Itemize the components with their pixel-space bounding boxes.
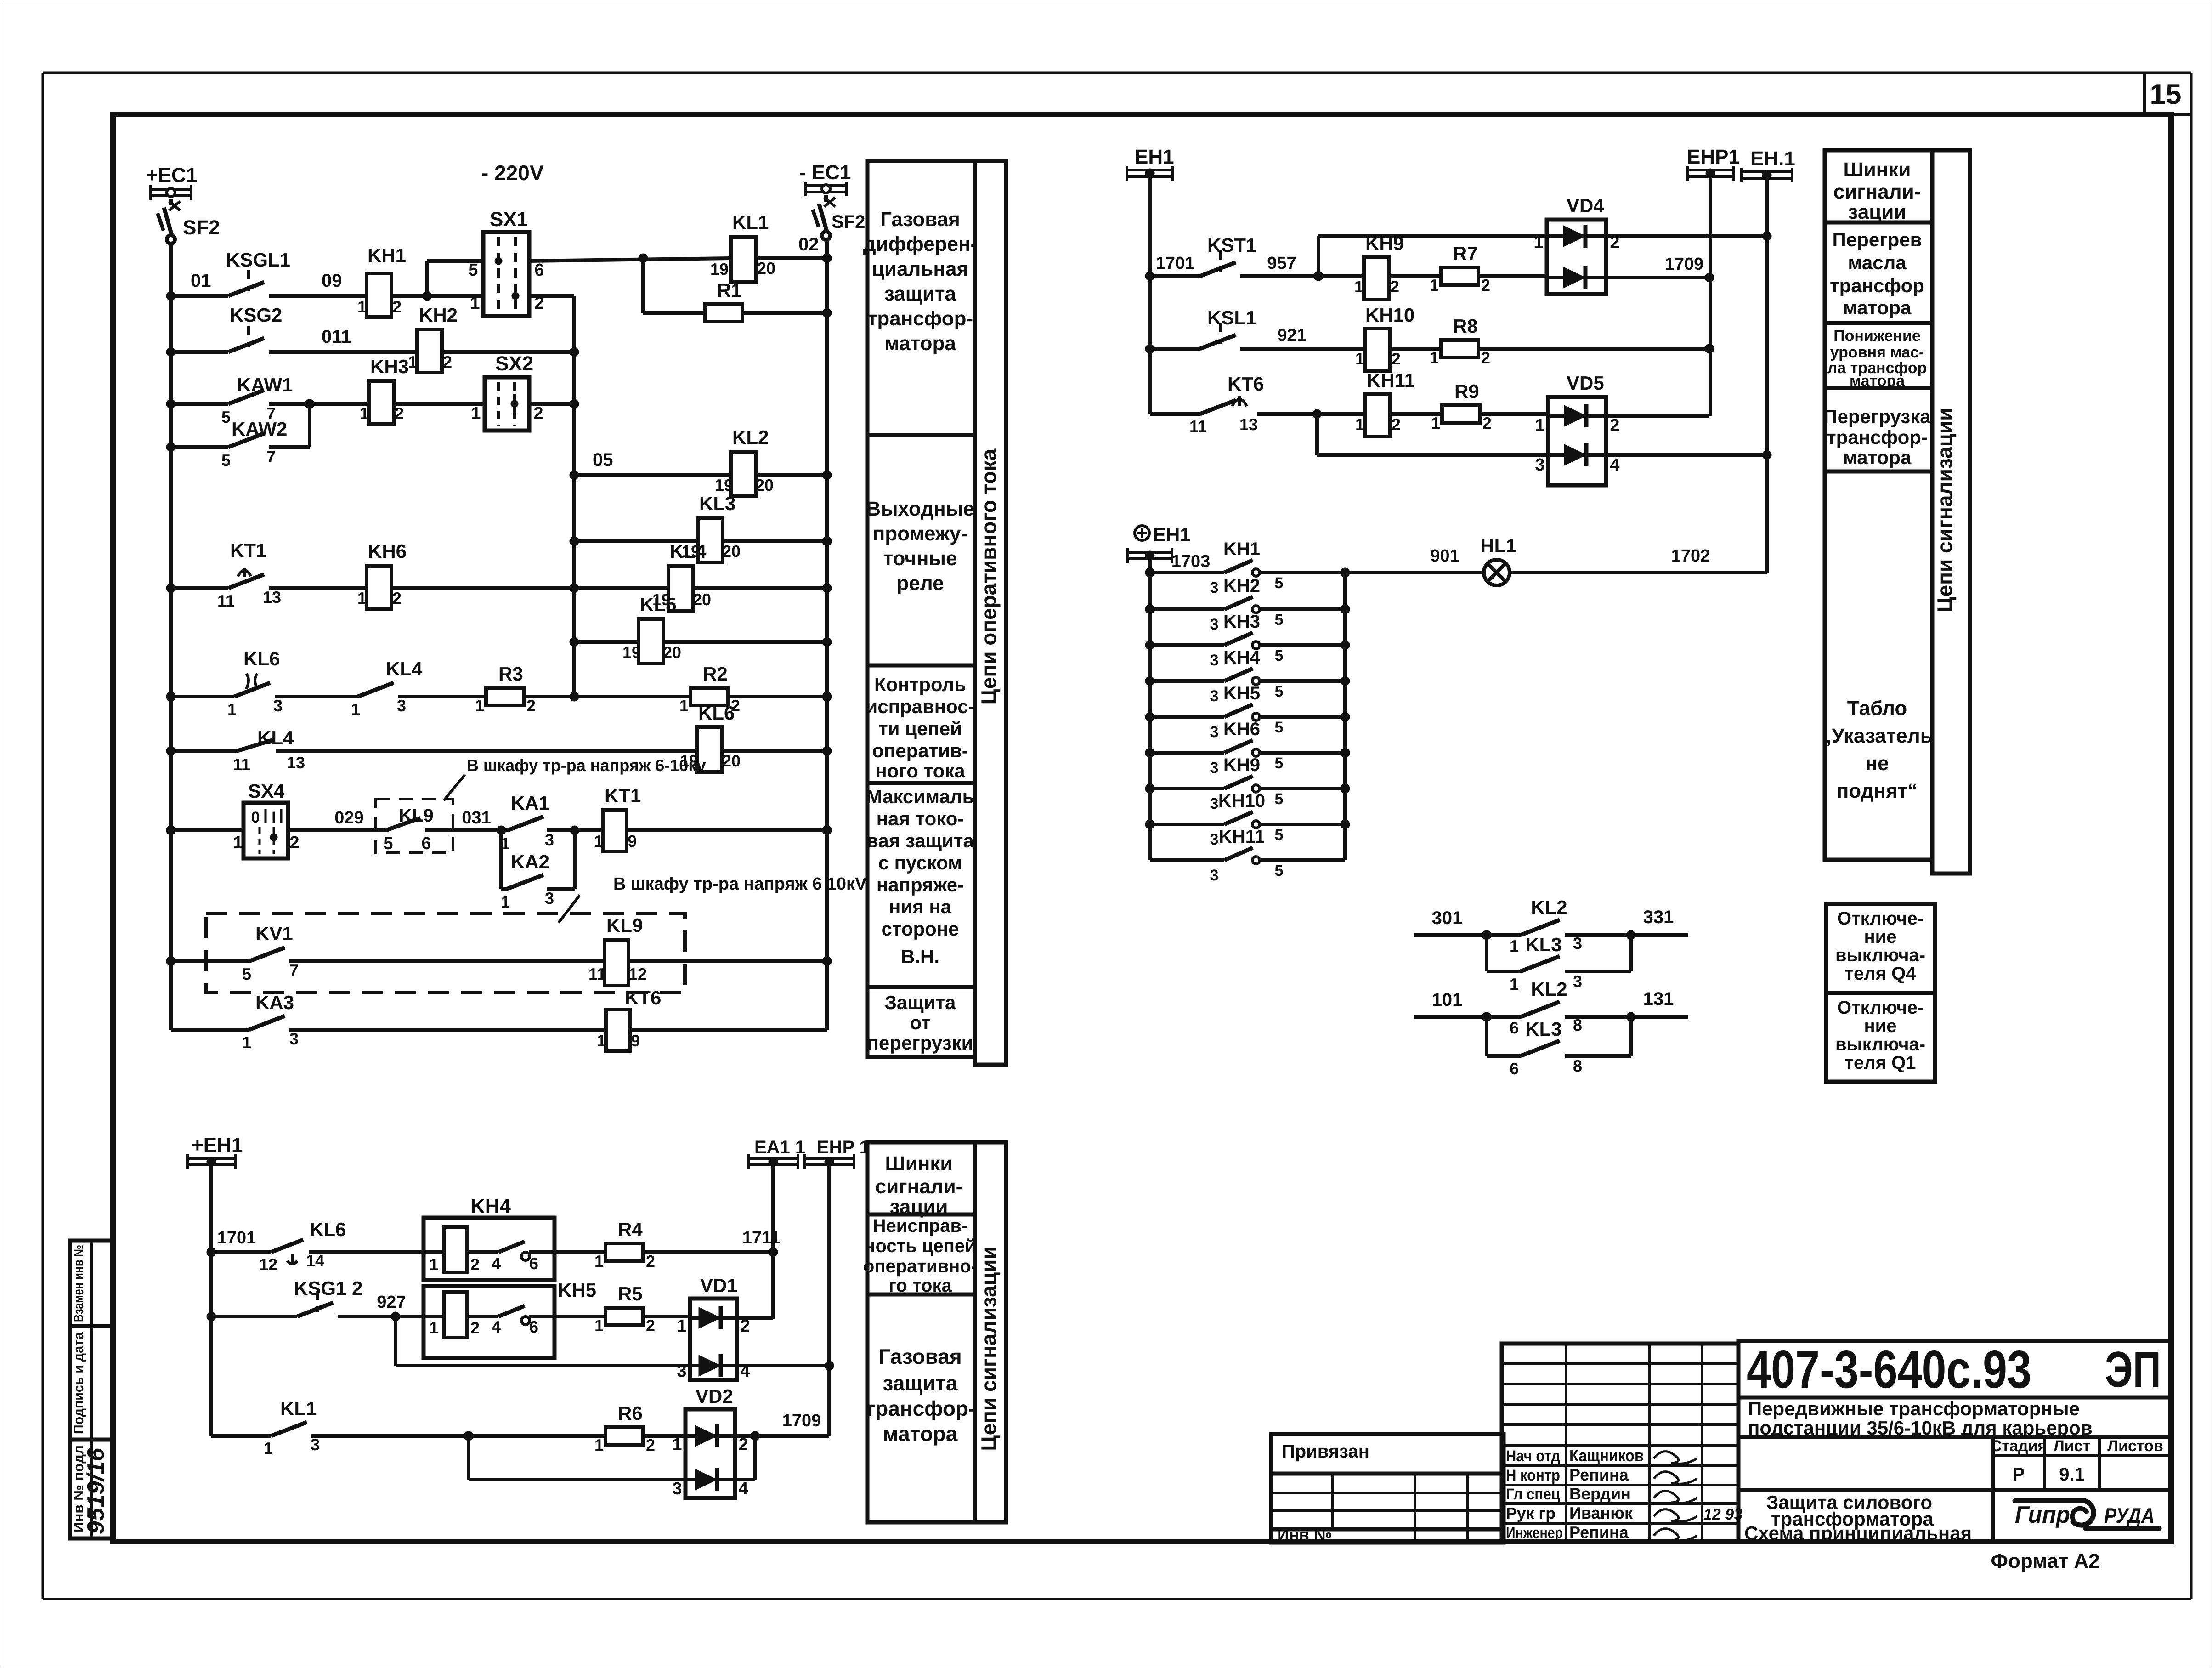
- wire EA11 vertical: [771, 1165, 775, 1319]
- wire rung12 left: [166, 957, 249, 966]
- svg-text:KT6: KT6: [625, 987, 661, 1009]
- svg-text:Шинки: Шинки: [885, 1152, 953, 1175]
- relay coil KH11: [1355, 369, 1415, 437]
- svg-text:19: 19: [715, 476, 733, 494]
- wire KL1 rung: [529, 234, 832, 263]
- svg-text:1: 1: [475, 696, 484, 715]
- svg-text:KH3: KH3: [1223, 612, 1260, 632]
- svg-text:1: 1: [233, 833, 243, 852]
- svg-text:вая защита: вая защита: [866, 830, 974, 851]
- svg-text:1: 1: [1430, 276, 1439, 295]
- svg-text:KL2: KL2: [1531, 896, 1567, 918]
- switch SX2: [471, 352, 543, 431]
- svg-text:матора: матора: [884, 332, 956, 355]
- svg-text:KL4: KL4: [670, 540, 707, 562]
- svg-text:R7: R7: [1453, 243, 1478, 264]
- dashed box voltage cabinet: [206, 913, 685, 993]
- svg-text:5: 5: [468, 261, 478, 280]
- svg-text:ние: ние: [1864, 927, 1897, 947]
- wire branch to SX1 pin5: [427, 261, 483, 296]
- wire 1702: [1510, 546, 1767, 573]
- svg-text:011: 011: [322, 327, 351, 347]
- wire rungT1 to VD4: [1478, 274, 1547, 278]
- svg-text:Подпись и дата: Подпись и дата: [71, 1332, 86, 1434]
- svg-text:РУДА: РУДА: [2104, 1503, 2155, 1527]
- svg-text:3: 3: [1210, 687, 1219, 705]
- text box Q1: [1826, 993, 1935, 1082]
- text box column - signal circuits right: [1825, 150, 1970, 874]
- svg-text:3: 3: [311, 1435, 320, 1454]
- svg-text:масла: масла: [1848, 252, 1907, 273]
- svg-text:Неисправ-: Неисправ-: [873, 1216, 968, 1236]
- contact KH2 signal: [1145, 576, 1350, 633]
- wire rung10 mid: [276, 749, 697, 753]
- bus EHP1 top: [1687, 146, 1740, 181]
- wire rungT1 m2: [1389, 274, 1441, 278]
- svg-text:01: 01: [191, 271, 211, 291]
- svg-text:KT6: KT6: [1228, 373, 1264, 395]
- svg-text:3: 3: [1573, 972, 1582, 991]
- wire rung4 left: [166, 443, 228, 452]
- svg-text:зации: зации: [890, 1196, 948, 1218]
- svg-text:6: 6: [1510, 1018, 1519, 1037]
- wire right bus: [825, 240, 829, 1030]
- svg-text:5: 5: [1275, 826, 1284, 844]
- svg-text:сигнали-: сигнали-: [1833, 181, 1921, 203]
- svg-text:KL6: KL6: [698, 702, 735, 724]
- svg-text:KH11: KH11: [1367, 369, 1415, 391]
- svg-text:SX4: SX4: [248, 780, 285, 802]
- contact KT1: [217, 539, 281, 610]
- label gas protection: [865, 1345, 976, 1446]
- wire VD2 pin2 out: [735, 1411, 829, 1441]
- svg-text:Нач отд: Нач отд: [1506, 1447, 1560, 1465]
- contact KL4 11-13: [233, 727, 305, 774]
- svg-text:KH10: KH10: [1365, 304, 1414, 326]
- contact KA3: [242, 992, 299, 1052]
- svg-text:KH4: KH4: [470, 1195, 511, 1218]
- vertical label signal circuits right: [1933, 408, 1957, 612]
- svg-text:14: 14: [306, 1251, 324, 1270]
- wire rung10 left: [166, 746, 238, 755]
- svg-text:Репина: Репина: [1569, 1523, 1629, 1542]
- svg-text:KH9: KH9: [1365, 233, 1404, 254]
- svg-text:12: 12: [628, 964, 647, 983]
- svg-text:Перегрев: Перегрев: [1833, 229, 1922, 250]
- svg-text:KH9: KH9: [1223, 755, 1260, 775]
- svg-text:Газовая: Газовая: [880, 208, 960, 231]
- svg-text:1: 1: [357, 589, 367, 607]
- svg-text:1: 1: [351, 700, 360, 719]
- wire rung4 join: [269, 404, 310, 447]
- svg-text:05: 05: [593, 450, 613, 470]
- wire rungT3 to VD5: [1480, 412, 1548, 416]
- svg-text:В шкафу тр-ра напряж 6-10кv: В шкафу тр-ра напряж 6-10кv: [467, 756, 706, 775]
- wire KSG12 branch: [396, 1316, 690, 1366]
- resistor R9: [1431, 380, 1492, 432]
- contact KL1: [264, 1398, 320, 1458]
- svg-text:3: 3: [1573, 934, 1582, 953]
- svg-text:1: 1: [242, 1033, 251, 1052]
- svg-text:KAW1: KAW1: [237, 374, 293, 396]
- bus +EC1: [146, 164, 197, 200]
- svg-text:В.Н.: В.Н.: [901, 946, 939, 967]
- svg-text:R2: R2: [703, 663, 728, 685]
- svg-text:Инженер: Инженер: [1506, 1524, 1563, 1542]
- wire rungB2 to VD1: [643, 1315, 690, 1318]
- diode block VD2: [672, 1385, 748, 1498]
- svg-text:2: 2: [526, 696, 536, 715]
- wire rung3 left: [166, 399, 228, 408]
- label output intermediate relays: [866, 498, 974, 595]
- svg-text:3: 3: [1210, 723, 1219, 741]
- svg-text:02: 02: [798, 234, 819, 255]
- svg-text:Передвижные трансформаторные: Передвижные трансформаторные: [1748, 1398, 2080, 1419]
- svg-text:Взамен инв №: Взамен инв №: [71, 1245, 86, 1322]
- svg-text:KL3: KL3: [1525, 934, 1561, 955]
- svg-text:8: 8: [1573, 1016, 1582, 1034]
- svg-text:2: 2: [443, 352, 452, 371]
- pривязан box: [1271, 1434, 1504, 1544]
- svg-text:1: 1: [677, 1316, 686, 1336]
- svg-text:Шинки: Шинки: [1844, 159, 1911, 181]
- vertical label signal circuits bottom: [977, 1246, 1001, 1451]
- svg-text:KL3: KL3: [699, 493, 735, 514]
- wire rungB3 to VD2: [643, 1434, 685, 1438]
- svg-text:KSL1: KSL1: [1207, 307, 1256, 329]
- svg-text:131: 131: [1643, 989, 1674, 1009]
- svg-text:3: 3: [545, 889, 554, 908]
- svg-text:Гл спец: Гл спец: [1506, 1486, 1560, 1503]
- svg-text:1: 1: [471, 404, 481, 423]
- wire rung5: [570, 450, 832, 480]
- svg-text:1: 1: [672, 1435, 682, 1454]
- svg-text:1: 1: [594, 1252, 604, 1271]
- vertical label operative current circuits: [977, 448, 1001, 704]
- svg-text:5: 5: [1275, 755, 1284, 772]
- svg-text:5: 5: [1275, 683, 1284, 700]
- svg-text:трансфор-: трансфор-: [867, 307, 973, 330]
- svg-text:1: 1: [594, 1435, 604, 1454]
- relay coil KL5: [622, 594, 681, 664]
- label transformer overload: [1823, 406, 1931, 468]
- svg-text:4: 4: [1610, 455, 1619, 475]
- svg-text:реле: реле: [896, 572, 944, 595]
- svg-text:2: 2: [1610, 416, 1619, 435]
- svg-text:Вердин: Вердин: [1569, 1484, 1631, 1503]
- svg-text:Листов: Листов: [2107, 1437, 2163, 1455]
- svg-text:1: 1: [1430, 348, 1439, 367]
- svg-text:13: 13: [1239, 415, 1258, 434]
- svg-text:R5: R5: [618, 1283, 643, 1305]
- contact KAW1: [221, 374, 293, 426]
- svg-text:2: 2: [646, 1435, 655, 1454]
- wire rung7 right: [391, 584, 832, 593]
- svg-text:Схема принципиальная: Схема принципиальная: [1744, 1522, 1972, 1544]
- resistor R7: [1430, 243, 1490, 295]
- svg-text:трансфор-: трансфор-: [1827, 426, 1928, 448]
- svg-text:KT1: KT1: [605, 785, 641, 806]
- svg-text:KH11: KH11: [1219, 827, 1265, 847]
- label tablo indicator: [1822, 697, 1933, 802]
- svg-text:1: 1: [470, 294, 480, 313]
- svg-text:20: 20: [755, 476, 774, 494]
- svg-text:уровня мас-: уровня мас-: [1830, 344, 1924, 361]
- svg-text:3: 3: [1210, 867, 1219, 884]
- wire middle bus: [572, 296, 576, 697]
- svg-text:KSGL1: KSGL1: [226, 249, 290, 271]
- svg-text:4: 4: [492, 1317, 501, 1336]
- svg-text:1: 1: [594, 1316, 604, 1335]
- svg-text:927: 927: [377, 1293, 406, 1312]
- contact KV1: [242, 923, 299, 983]
- wire rungB3 left: [211, 1434, 271, 1438]
- svg-text:20: 20: [722, 542, 741, 561]
- svg-text:подстанции 35/6-10кВ для ка: подстанции 35/6-10кВ для карьеров: [1748, 1417, 2093, 1439]
- svg-text:исправнос-: исправнос-: [866, 696, 974, 717]
- contact group KL2/KL3 Q1: [1414, 978, 1688, 1078]
- switch SX1: [468, 208, 544, 316]
- contact KH11 signal: [1150, 827, 1345, 884]
- relay coil KL4: [652, 540, 711, 611]
- svg-text:901: 901: [1430, 546, 1459, 566]
- indicating relay KH5: [424, 1279, 596, 1358]
- wire rungT2 mid: [1240, 326, 1365, 349]
- svg-text:7: 7: [289, 961, 299, 980]
- label overload protection: [867, 992, 973, 1054]
- svg-text:19: 19: [710, 260, 729, 278]
- svg-text:1: 1: [1431, 414, 1440, 432]
- wire EHP1 vertical: [1709, 176, 1712, 416]
- svg-text:поднят“: поднят“: [1837, 780, 1918, 802]
- svg-text:KL1: KL1: [280, 1398, 317, 1419]
- svg-text:Н контр: Н контр: [1506, 1467, 1560, 1484]
- svg-text:2: 2: [646, 1252, 655, 1271]
- svg-text:8: 8: [1573, 1056, 1582, 1075]
- svg-text:12 93: 12 93: [1703, 1506, 1742, 1523]
- svg-text:2: 2: [1481, 348, 1490, 367]
- svg-text:EHP 1: EHP 1: [817, 1137, 870, 1157]
- wire rungB2 mid: [338, 1293, 444, 1321]
- contact KL6 aux: [259, 1219, 346, 1274]
- svg-text:EH1: EH1: [1135, 146, 1174, 168]
- svg-text:3: 3: [1535, 455, 1544, 475]
- svg-text:KA3: KA3: [255, 992, 294, 1013]
- svg-text:защита: защита: [884, 283, 956, 305]
- svg-text:защита: защита: [883, 1371, 957, 1395]
- svg-text:теля Q4: теля Q4: [1844, 964, 1916, 984]
- relay coil KT6: [597, 987, 661, 1051]
- svg-text:1701: 1701: [1156, 254, 1195, 273]
- svg-text:301: 301: [1432, 908, 1463, 928]
- svg-text:ти цепей: ти цепей: [878, 718, 962, 739]
- svg-text:оператив-: оператив-: [872, 740, 968, 761]
- wire rung13 mid: [289, 1028, 606, 1032]
- relay coil KH1: [357, 244, 406, 317]
- svg-text:5: 5: [1275, 647, 1284, 664]
- svg-text:1: 1: [429, 1318, 438, 1337]
- svg-text:2: 2: [470, 1318, 480, 1337]
- contact KL6 break: [227, 648, 283, 719]
- svg-text:4: 4: [492, 1254, 501, 1273]
- svg-text:Цепи сигнализации: Цепи сигнализации: [977, 1246, 1001, 1451]
- svg-text:KA1: KA1: [511, 792, 549, 814]
- svg-text:EA1 1: EA1 1: [754, 1137, 805, 1157]
- wire rungB1 1711: [643, 1228, 780, 1257]
- svg-text:трансфор-: трансфор-: [865, 1396, 976, 1420]
- wire SX2 out: [529, 399, 579, 408]
- wire left bus: [169, 244, 173, 1030]
- svg-text:5: 5: [383, 834, 393, 853]
- resistor R4: [594, 1219, 655, 1271]
- diode block VD1: [677, 1275, 750, 1381]
- svg-text:5: 5: [1275, 862, 1284, 879]
- bus +EH1: [187, 1134, 243, 1169]
- svg-text:теля Q1: теля Q1: [1844, 1053, 1916, 1073]
- contact KSG12: [294, 1277, 362, 1316]
- svg-text:20: 20: [693, 590, 711, 609]
- svg-text:1709: 1709: [782, 1411, 821, 1430]
- relay coil KL6: [680, 702, 741, 772]
- logo Giproruda: [2015, 1501, 2159, 1528]
- svg-text:3: 3: [1210, 652, 1219, 669]
- svg-text:R1: R1: [717, 279, 742, 301]
- svg-text:Цепи сигнализации: Цепи сигнализации: [1933, 408, 1957, 612]
- svg-text:2: 2: [289, 833, 299, 852]
- wire rung1 left: [166, 291, 228, 301]
- svg-text:KT1: KT1: [230, 539, 266, 561]
- svg-text:12: 12: [259, 1255, 277, 1274]
- svg-text:2: 2: [1482, 414, 1492, 432]
- wire rung1 mid: [269, 271, 367, 296]
- svg-text:031: 031: [462, 808, 491, 828]
- svg-text:3: 3: [289, 1029, 299, 1048]
- svg-text:5: 5: [221, 451, 231, 470]
- svg-text:13: 13: [287, 753, 305, 772]
- wire rung3 to SX2: [394, 402, 485, 406]
- svg-text:2: 2: [646, 1316, 655, 1335]
- svg-text:KH6: KH6: [1223, 719, 1260, 739]
- title block grid: [1502, 1341, 2171, 1542]
- wire KH chain collector: [1343, 573, 1347, 860]
- wire rung11 m3: [547, 826, 603, 835]
- label operative circuits fault: [863, 1216, 977, 1296]
- title project name: [1748, 1398, 2093, 1439]
- svg-text:20: 20: [757, 259, 775, 278]
- svg-text:KH6: KH6: [368, 540, 407, 562]
- resistor R3: [475, 663, 536, 715]
- text box column - operative current circuits: [867, 161, 1006, 1065]
- svg-text:матора: матора: [1843, 447, 1912, 468]
- svg-text:1: 1: [357, 297, 367, 316]
- svg-text:Контроль: Контроль: [874, 674, 966, 695]
- signatures: [1654, 1452, 1697, 1541]
- wire rungT2 left: [1145, 344, 1200, 353]
- contact KL9 remote: [376, 799, 453, 853]
- breaker SF2 right: [813, 195, 865, 240]
- bus -EC1: [799, 161, 851, 196]
- wire rungT2 m2: [1390, 347, 1441, 351]
- wire EHP1 vertical bottom: [827, 1165, 831, 1436]
- contact KSG2: [228, 304, 282, 352]
- svg-text:11: 11: [1189, 417, 1207, 436]
- svg-text:1: 1: [679, 696, 689, 715]
- contact KH9 signal: [1145, 755, 1350, 812]
- text box column - signal circuits bottom: [867, 1142, 1006, 1522]
- signature table labels: [1506, 1446, 1742, 1542]
- svg-text:1: 1: [227, 700, 237, 719]
- svg-text:оперативно-: оперативно-: [863, 1256, 977, 1277]
- svg-text:EHP1: EHP1: [1687, 146, 1740, 168]
- wire rung10 right: [722, 746, 832, 755]
- left margin boxes: [70, 1241, 113, 1538]
- svg-text:KH2: KH2: [419, 304, 458, 326]
- svg-text:не: не: [1865, 752, 1889, 775]
- label operative current supervision: [866, 674, 974, 782]
- wire rung1 to SX1: [391, 291, 483, 301]
- svg-text:2: 2: [470, 1255, 480, 1274]
- svg-text:перегрузки: перегрузки: [867, 1032, 973, 1054]
- contact KH4 signal: [1145, 647, 1350, 705]
- stage cells: [1991, 1437, 2163, 1485]
- svg-text:5: 5: [221, 408, 231, 426]
- svg-text:Иванюк: Иванюк: [1569, 1503, 1633, 1522]
- label signal buses right: [1833, 159, 1921, 223]
- switch SX4: [233, 780, 299, 858]
- contact KH3 signal: [1145, 612, 1350, 669]
- svg-text:от: от: [910, 1012, 930, 1033]
- wire rung9 m3: [524, 692, 690, 701]
- svg-text:выключа-: выключа-: [1835, 945, 1925, 965]
- svg-text:407-3-640с.93: 407-3-640с.93: [1747, 1339, 2031, 1399]
- svg-text:1: 1: [1355, 415, 1364, 434]
- svg-text:Максималь: Максималь: [866, 786, 974, 807]
- svg-text:KH1: KH1: [1223, 539, 1260, 559]
- doc number 407-3-640s.93 EP: [1747, 1339, 2161, 1399]
- svg-text:VD1: VD1: [700, 1275, 738, 1296]
- svg-text:5: 5: [1275, 574, 1284, 592]
- svg-text:KL6: KL6: [310, 1219, 346, 1240]
- svg-text:029: 029: [334, 808, 363, 828]
- bus EA11: [748, 1137, 805, 1169]
- svg-text:3: 3: [1210, 795, 1219, 812]
- wire rung13 left: [171, 1028, 249, 1032]
- svg-text:9519/16: 9519/16: [83, 1447, 109, 1534]
- svg-text:101: 101: [1432, 990, 1463, 1010]
- svg-text:2: 2: [1390, 277, 1399, 296]
- wire EH1 chain vertical: [1150, 552, 1210, 860]
- breaker SF2 left: [158, 199, 220, 244]
- contact KA2 bypass: [501, 830, 575, 911]
- wire rung3 mid: [269, 399, 369, 408]
- svg-text:6: 6: [421, 834, 431, 853]
- svg-text:KH1: KH1: [368, 244, 406, 266]
- wire rung12 right: [628, 957, 832, 966]
- resistor R2: [679, 663, 740, 715]
- relay coil KL9: [588, 914, 647, 986]
- wire lamp rung: [1345, 546, 1484, 573]
- wire rungB1 to R4: [554, 1250, 606, 1254]
- contact KSL1: [1200, 307, 1256, 349]
- svg-text:3: 3: [397, 696, 406, 715]
- svg-text:1709: 1709: [1665, 255, 1704, 274]
- svg-text:11: 11: [217, 591, 235, 610]
- svg-text:KH4: KH4: [1223, 647, 1261, 668]
- svg-text:19: 19: [622, 643, 641, 662]
- contact group KL2/KL3 Q4: [1414, 896, 1688, 993]
- svg-text:3: 3: [273, 696, 283, 715]
- svg-text:5: 5: [1275, 790, 1284, 808]
